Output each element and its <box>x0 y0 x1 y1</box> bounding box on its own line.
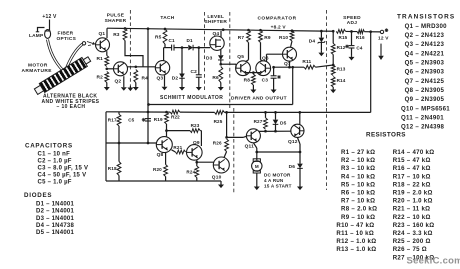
wire R3 down <box>125 41 143 67</box>
svg-text:R13: R13 <box>337 67 346 72</box>
svg-text:R16 – 47 kΩ: R16 – 47 kΩ <box>393 165 431 172</box>
junction rail x=292 <box>291 29 294 32</box>
fiber optic tube to sensor <box>66 44 83 71</box>
label LAMP <box>29 33 44 39</box>
resistor R14 <box>331 77 335 88</box>
svg-text:C1 – 10 nF: C1 – 10 nF <box>38 152 71 158</box>
fiber end ferrule <box>82 42 85 45</box>
resistor R22 on rail <box>170 110 180 114</box>
wire Q6 to Q7 base <box>267 54 283 61</box>
svg-text:COMPARATOR: COMPARATOR <box>257 16 296 22</box>
wire Q4 source <box>220 50 222 56</box>
svg-text:Q9: Q9 <box>193 140 200 146</box>
wire R10 to Q7 <box>291 41 293 47</box>
svg-text:R14 – 470 kΩ: R14 – 470 kΩ <box>393 149 435 156</box>
label R13 <box>337 67 346 72</box>
svg-text:C5: C5 <box>128 117 134 122</box>
svg-text:R4 – 10 kΩ: R4 – 10 kΩ <box>341 173 375 180</box>
label Q6 <box>262 55 269 61</box>
wire Q11-Q12 node <box>259 130 292 132</box>
svg-text:FIBER: FIBER <box>58 30 74 36</box>
junction node x=275.5 <box>274 130 277 133</box>
junction rail x=260.5 <box>259 29 262 32</box>
svg-text:TRANSISTORS: TRANSISTORS <box>397 13 455 20</box>
svg-text:R2 – 10 kΩ: R2 – 10 kΩ <box>341 157 375 164</box>
svg-text:– 10 EACH: – 10 EACH <box>57 104 86 110</box>
label R20 <box>153 167 162 172</box>
resistor R2 <box>105 72 109 83</box>
label Q2 <box>115 78 122 84</box>
label R5 <box>155 35 162 41</box>
resistor R10 <box>290 31 294 41</box>
svg-text:Q8 – 2N3905: Q8 – 2N3905 <box>405 87 445 94</box>
junction lower rail x=299.8 <box>298 111 301 114</box>
svg-text:R21 – 11 kΩ: R21 – 11 kΩ <box>393 206 431 213</box>
label R10 <box>279 35 288 41</box>
wire Q1 collector <box>106 28 108 38</box>
terminal 12V <box>380 28 388 33</box>
resistor R27 <box>264 112 268 129</box>
svg-text:R12 – 1.0 kΩ: R12 – 1.0 kΩ <box>336 238 376 245</box>
svg-text:C3 – 8.0 µF, 15 V: C3 – 8.0 µF, 15 V <box>38 166 89 172</box>
wire lower +V rail <box>106 111 170 113</box>
label Q9 <box>193 140 200 146</box>
resistor R9 <box>259 30 263 42</box>
svg-text:R20 – 1.0 kΩ: R20 – 1.0 kΩ <box>393 198 433 205</box>
svg-text:Q7 – 2N4125: Q7 – 2N4125 <box>405 78 445 85</box>
transistor Q6 <box>256 61 271 76</box>
junction lower rail x=148 <box>147 111 150 114</box>
label R1 <box>97 56 104 62</box>
label Q7 <box>284 61 291 67</box>
list diodes values <box>36 202 75 236</box>
svg-text:Q1: Q1 <box>99 31 106 37</box>
label R9 <box>264 35 271 41</box>
svg-text:R1: R1 <box>97 56 104 62</box>
list header CAPACITORS <box>25 142 73 149</box>
transistor Q1 <box>96 38 110 52</box>
label Q12 <box>288 139 298 145</box>
svg-text:R3: R3 <box>113 32 120 38</box>
svg-text:R1 – 27 kΩ: R1 – 27 kΩ <box>341 149 375 156</box>
transistor Q5 <box>236 61 251 76</box>
label D6 <box>289 164 296 170</box>
label R23 <box>191 123 200 128</box>
resistor R8 <box>252 74 256 85</box>
svg-text:R11 – 10 kΩ: R11 – 10 kΩ <box>336 230 374 237</box>
diode D1 <box>188 45 193 51</box>
svg-text:R17: R17 <box>108 117 117 122</box>
label C1 <box>169 38 175 43</box>
svg-text:Q2 – 2N4123: Q2 – 2N4123 <box>405 32 445 39</box>
svg-text:R19: R19 <box>154 117 163 122</box>
wire Q8 collector node to R23 <box>167 130 191 132</box>
resistor R17 <box>117 112 121 143</box>
wire long vertical to lower rail <box>147 29 149 143</box>
wire +12V to lamp <box>49 20 51 31</box>
resistor R19 <box>165 112 169 124</box>
svg-text:R24 – 3.3 kΩ: R24 – 3.3 kΩ <box>393 230 433 237</box>
dashed separator tach/level-shifter <box>204 12 206 92</box>
wire Q11 base <box>227 136 247 137</box>
svg-text:SHAPER: SHAPER <box>105 18 127 24</box>
ground below C2 <box>196 83 202 91</box>
label R8 <box>244 77 251 83</box>
junction rail x=223.2 <box>222 28 225 31</box>
ground below D4 <box>318 51 324 56</box>
resistor R23 <box>190 129 200 133</box>
svg-text:C4 – 50 µF, 15 V: C4 – 50 µF, 15 V <box>38 173 87 179</box>
label SCHMITT MODULATOR <box>160 95 223 101</box>
resistor R7 <box>247 30 251 42</box>
light arrow to Q1 <box>87 42 95 46</box>
svg-text:Q6: Q6 <box>262 55 269 61</box>
svg-text:R15: R15 <box>339 35 348 40</box>
wire R24 to lower ground rail <box>196 178 198 182</box>
label Q8 <box>157 152 164 158</box>
svg-text:R14: R14 <box>337 78 346 83</box>
junction Q8 collector node <box>165 129 168 132</box>
svg-text:R9: R9 <box>264 35 271 41</box>
label SPEED ADJ <box>343 15 361 26</box>
lamp L1 <box>45 30 51 39</box>
label R18 <box>108 166 117 171</box>
label C2 <box>191 69 198 75</box>
list resistors left column <box>336 149 377 253</box>
label R27 <box>254 119 263 124</box>
resistor R20 <box>164 165 168 177</box>
svg-text:D4 – 1N4738: D4 – 1N4738 <box>36 223 75 229</box>
svg-text:ARMATURE: ARMATURE <box>22 68 53 74</box>
label R12 <box>337 45 346 50</box>
label R7 <box>238 35 245 41</box>
svg-text:R18: R18 <box>108 166 117 171</box>
transistor Q2 <box>114 62 128 76</box>
resistor R6 <box>219 67 223 83</box>
svg-text:R6: R6 <box>212 75 219 81</box>
label D2 <box>172 75 179 81</box>
svg-text:D2: D2 <box>172 75 179 81</box>
label C5 <box>128 117 134 122</box>
svg-text:R3 – 10 kΩ: R3 – 10 kΩ <box>341 165 375 172</box>
ground below R14 <box>330 87 336 93</box>
diode D6 <box>297 152 303 183</box>
svg-text:Q1 – MRD300: Q1 – MRD300 <box>405 23 448 30</box>
transistor Q8 <box>156 137 172 153</box>
list capacitors values <box>38 152 89 186</box>
wire Q2 collector to Q3 base <box>128 66 156 68</box>
wire Q8 emitter <box>165 152 167 164</box>
svg-text:12 V: 12 V <box>378 36 389 42</box>
svg-text:R21: R21 <box>173 145 182 150</box>
svg-text:Q3: Q3 <box>157 76 164 82</box>
svg-text:Q6 – 2N3903: Q6 – 2N3903 <box>405 69 445 76</box>
label R6 <box>212 75 219 81</box>
wire rail R15-R16 <box>346 30 358 32</box>
wire Q1 emitter <box>106 51 108 55</box>
svg-text:R6 – 10 kΩ: R6 – 10 kΩ <box>341 190 375 197</box>
ground below R8 <box>250 85 256 93</box>
svg-text:Q10: Q10 <box>212 174 222 180</box>
label C4 <box>356 45 362 50</box>
junction Q9-R24 <box>195 161 198 164</box>
label R19 <box>154 117 163 122</box>
wire R7 to Q5 <box>246 43 249 62</box>
capacitor C2 <box>196 48 202 83</box>
ground below R6 <box>218 83 224 91</box>
svg-text:Q4: Q4 <box>213 31 220 37</box>
svg-text:Q10 – MPS6561: Q10 – MPS6561 <box>401 105 450 112</box>
svg-text:R17 – 10 kΩ: R17 – 10 kΩ <box>393 173 431 180</box>
svg-text:MOTOR: MOTOR <box>28 63 48 69</box>
svg-text:SeekIC.com: SeekIC.com <box>407 256 460 267</box>
svg-text:15 A START: 15 A START <box>264 183 292 188</box>
svg-text:R5: R5 <box>155 35 162 41</box>
resistor R21 <box>172 150 186 154</box>
svg-text:TACH: TACH <box>160 15 174 21</box>
svg-text:D5: D5 <box>280 120 287 126</box>
label R21 <box>173 145 182 150</box>
junction lower rail x=166.5 <box>165 111 168 114</box>
label D1 <box>187 38 193 43</box>
resistor R1 <box>105 56 109 67</box>
wire rail R22 to R25 <box>180 111 215 113</box>
svg-text:R23 – 160 kΩ: R23 – 160 kΩ <box>393 222 435 229</box>
label MOTOR ARMATURE <box>22 63 53 74</box>
svg-text:PULSE: PULSE <box>107 13 125 19</box>
wire Q7 emitter <box>289 61 291 67</box>
svg-text:C5 – 1.0 µF: C5 – 1.0 µF <box>38 180 72 186</box>
wire rail R25 to right <box>224 111 370 113</box>
svg-text:R4: R4 <box>142 75 149 81</box>
wire R11 to R13 node <box>316 65 334 67</box>
label R3 <box>113 32 120 38</box>
svg-text:R8: R8 <box>244 77 251 83</box>
svg-text:Q9 – 2N3905: Q9 – 2N3905 <box>405 96 445 103</box>
svg-text:R8 – 2.0 kΩ: R8 – 2.0 kΩ <box>341 206 377 213</box>
junction Q7-R11 node <box>288 66 291 69</box>
transistor Q4 JFET <box>210 36 224 50</box>
dashed separator level-shifter/comparator <box>230 12 234 194</box>
label R17 <box>108 117 117 122</box>
label 12 V <box>378 36 389 42</box>
label R4 <box>142 75 149 81</box>
svg-text:Q8: Q8 <box>157 152 164 158</box>
svg-text:R12: R12 <box>337 45 346 50</box>
label R24 <box>186 169 195 174</box>
resistor R3 <box>123 28 127 40</box>
junction C2 top <box>197 46 200 49</box>
ground below Q10 <box>218 181 224 188</box>
svg-text:C4: C4 <box>356 45 362 50</box>
svg-text:R27: R27 <box>254 119 263 124</box>
capacitor C4 <box>345 32 354 56</box>
svg-text:R7 – 10 kΩ: R7 – 10 kΩ <box>341 198 375 205</box>
label R14 <box>337 78 346 83</box>
svg-text:R2: R2 <box>97 75 104 81</box>
wire R12-R13 <box>332 55 334 66</box>
wire Q12 collector <box>299 112 301 124</box>
junction base wire x=148 <box>147 142 150 145</box>
resistor R15 <box>336 29 345 33</box>
dashed separator pulse-shaper/tach <box>127 10 133 91</box>
capacitor C3 <box>271 67 281 85</box>
svg-text:Q5: Q5 <box>237 54 244 60</box>
label D5 <box>280 120 287 126</box>
junction D2 top <box>181 46 184 49</box>
label R26 <box>213 141 222 146</box>
svg-text:4 A RUN: 4 A RUN <box>264 178 284 183</box>
label R11 <box>302 59 311 65</box>
svg-text:SHIFTER: SHIFTER <box>204 19 227 25</box>
svg-text:Q4 – 2N4221: Q4 – 2N4221 <box>405 50 445 57</box>
svg-text:Q5 – 2N3903: Q5 – 2N3903 <box>405 60 445 67</box>
junction rail x=370.7 <box>369 30 372 33</box>
label R15 <box>339 35 348 40</box>
wire Q4 drain <box>220 31 222 38</box>
wire Q11 emitter to motor <box>253 143 256 160</box>
label D4 <box>309 39 316 45</box>
label Q10 <box>212 174 222 180</box>
ground below D2 <box>179 83 185 91</box>
label ALTERNATE BLACK AND WHITE STRIPES <box>42 94 100 111</box>
svg-text:Q3 – 2N4123: Q3 – 2N4123 <box>405 41 445 48</box>
transistor Q11 <box>246 129 260 143</box>
ground below R2 <box>104 83 110 91</box>
diode D5 <box>273 112 279 131</box>
svg-text:R26: R26 <box>213 141 222 146</box>
label C3 <box>262 77 269 83</box>
junction motor node <box>255 151 258 154</box>
svg-text:Q11 – 2N4901: Q11 – 2N4901 <box>401 115 444 122</box>
wire lower rail left drop <box>105 112 107 181</box>
svg-text:D6: D6 <box>289 164 296 170</box>
svg-text:R15 – 47 kΩ: R15 – 47 kΩ <box>393 157 431 164</box>
motor armature <box>33 55 92 97</box>
svg-text:R22: R22 <box>171 115 180 120</box>
lamp return hook <box>36 28 45 32</box>
resistor R26 <box>225 139 229 152</box>
wire R26 top <box>226 112 228 137</box>
transistor Q12 <box>291 124 304 137</box>
label Q4 <box>213 31 220 37</box>
wire Q5 Q6 emitters <box>246 71 260 75</box>
label FIBER OPTICS <box>57 30 77 41</box>
svg-text:R20: R20 <box>153 167 162 172</box>
junction R4 top <box>134 65 137 68</box>
svg-text:M: M <box>255 164 259 169</box>
junction lower rail x=275.5 <box>274 111 277 114</box>
resistor R5 <box>163 29 167 44</box>
transistor Q9 <box>187 145 203 161</box>
label Q1 <box>99 31 106 37</box>
svg-text:+12 V: +12 V <box>42 14 57 20</box>
svg-text:Q12 – 2N4398: Q12 – 2N4398 <box>401 124 445 131</box>
svg-text:Q2: Q2 <box>115 78 122 84</box>
label Q5 <box>237 54 244 60</box>
capacitor C1 <box>172 45 174 51</box>
label LEVEL SHIFTER <box>204 14 227 25</box>
list resistors right column <box>393 149 435 261</box>
wire right vertical <box>370 32 372 113</box>
transistor Q3 <box>155 61 169 75</box>
wire R9 to Q6 <box>261 43 263 61</box>
svg-text:C2 – 1.0 µF: C2 – 1.0 µF <box>38 159 72 165</box>
svg-text:OPTICS: OPTICS <box>57 36 77 42</box>
svg-text:C1: C1 <box>169 38 175 43</box>
wire Q9 emitter <box>196 160 198 166</box>
wire level shifter output <box>221 64 236 68</box>
resistor R16 <box>357 30 364 34</box>
diode D3 <box>218 55 224 64</box>
svg-text:R23: R23 <box>191 123 200 128</box>
label R16 <box>356 35 365 40</box>
label D3 <box>206 55 213 61</box>
junction lower rail x=226.6 <box>225 111 228 114</box>
svg-text:D1: D1 <box>187 38 193 43</box>
ground below R4 <box>133 83 139 91</box>
junction rail x=321.4 <box>320 30 323 33</box>
junction R13 top <box>332 64 335 67</box>
svg-text:DIODES: DIODES <box>24 192 52 199</box>
wire R5 to C1 node <box>164 44 172 48</box>
list transistors values <box>401 23 450 131</box>
svg-text:D3 – 1N4001: D3 – 1N4001 <box>36 216 75 222</box>
resistor R24 <box>195 166 199 178</box>
svg-text:R13 – 1.0 kΩ: R13 – 1.0 kΩ <box>336 246 376 253</box>
svg-text:R11: R11 <box>302 59 311 65</box>
label Q3 <box>157 76 164 82</box>
junction D3-R6 <box>219 63 222 66</box>
wire Q3 collector <box>163 48 165 61</box>
junction node x=265.5 <box>264 130 267 133</box>
label COMPARATOR <box>257 16 296 22</box>
wire Q8 base <box>106 142 156 144</box>
label +12V <box>42 14 57 20</box>
svg-text:R10: R10 <box>279 35 288 41</box>
svg-text:Q12: Q12 <box>288 139 298 145</box>
junction D6 top <box>299 151 302 154</box>
label PULSE SHAPER <box>105 13 127 24</box>
ground below D6 <box>297 183 303 190</box>
label R22 <box>171 115 180 120</box>
junction base wire x=119 <box>118 142 121 145</box>
fiber optic tube to lamp <box>48 40 63 71</box>
junction lower rail x=265.5 <box>264 111 267 114</box>
svg-text:ADJ: ADJ <box>347 20 358 26</box>
junction rail x=351.5 <box>350 30 353 33</box>
wire comparator output feedback <box>147 66 294 106</box>
list header RESISTORS <box>366 132 406 139</box>
dashed separator comparator/speed-adj <box>326 10 328 190</box>
wire Q9 to Q10 base <box>197 161 214 163</box>
wire emitter bus <box>257 151 300 153</box>
watermark SeekIC.com <box>407 256 460 267</box>
svg-text:C3: C3 <box>262 77 269 83</box>
wire D1 to level shifter <box>193 47 210 49</box>
svg-text:C2: C2 <box>191 69 198 75</box>
list header TRANSISTORS <box>397 13 455 20</box>
wire R12 top <box>332 31 334 43</box>
transistor Q10 <box>213 157 229 173</box>
svg-text:LAMP: LAMP <box>29 33 44 39</box>
svg-text:Q11: Q11 <box>245 143 255 149</box>
svg-text:R10 – 47 kΩ: R10 – 47 kΩ <box>336 222 374 229</box>
svg-text:R24: R24 <box>186 169 195 174</box>
svg-text:D3: D3 <box>206 55 213 61</box>
resistor R4 <box>134 70 138 83</box>
svg-text:R9 – 10 kΩ: R9 – 10 kΩ <box>341 214 375 221</box>
